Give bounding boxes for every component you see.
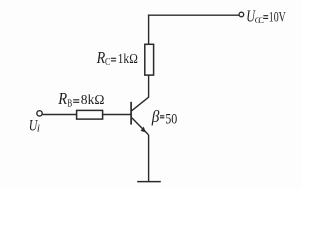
svg-text:β: β <box>151 107 160 126</box>
resistor RC <box>145 44 154 75</box>
label RC=1kΩ <box>96 48 138 68</box>
svg-text:10V: 10V <box>269 10 287 26</box>
svg-text:50: 50 <box>165 111 177 127</box>
svg-text:i: i <box>37 123 40 135</box>
wire <box>148 14 239 16</box>
svg-text:R: R <box>96 48 105 67</box>
wire <box>103 114 131 116</box>
svg-text:C: C <box>258 15 264 25</box>
wire <box>148 135 150 181</box>
svg-text:R: R <box>57 89 67 108</box>
ground <box>137 181 161 183</box>
label UCC=10V <box>246 7 286 26</box>
svg-text:1kΩ: 1kΩ <box>118 52 138 67</box>
label Ui <box>29 118 40 135</box>
label beta=50 <box>151 107 177 127</box>
wire <box>42 114 76 116</box>
transistor Q1 <box>131 97 149 135</box>
svg-text:B: B <box>67 98 72 109</box>
resistor RB <box>77 110 103 119</box>
svg-text:C: C <box>105 57 111 68</box>
wire <box>148 15 150 45</box>
svg-text:8kΩ: 8kΩ <box>81 93 105 108</box>
terminal Ucc <box>239 12 244 17</box>
wire <box>148 75 150 97</box>
terminal Ui <box>37 111 42 116</box>
label RB=8kΩ <box>57 89 104 110</box>
